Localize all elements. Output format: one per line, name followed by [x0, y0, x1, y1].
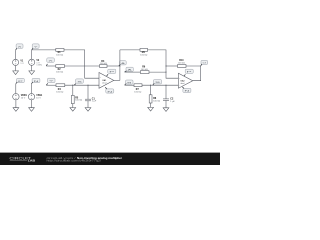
svg-text:−: −: [179, 85, 180, 87]
wire R2 to R3: [65, 65, 100, 67]
svg-text:10 V: 10 V: [21, 97, 26, 99]
wire V4 top: [30, 84, 32, 94]
flag F12 (output node): [201, 60, 208, 66]
svg-text:100 kΩ: 100 kΩ: [153, 101, 160, 103]
svg-text:1 kHz: 1 kHz: [36, 65, 42, 67]
flag F14 (OA2 V- pin): [182, 87, 191, 93]
flag F3 (row2 source): [46, 58, 54, 66]
svg-text:100 kΩ: 100 kΩ: [56, 71, 63, 73]
ground below V2: [29, 71, 35, 75]
voltage source V1: [13, 59, 25, 65]
junction row3/C2: [165, 85, 166, 86]
wire V4 bottom: [31, 100, 33, 108]
ground below V4: [29, 108, 35, 112]
wire V3 top: [15, 84, 17, 94]
wire R7 to OA2 minus input: [142, 84, 178, 86]
flag F11 (near junction x150.6): [153, 80, 163, 86]
footer bar: [0, 153, 220, 165]
flag F6 (OA1 V+ pin): [107, 69, 117, 76]
flag F8 (on riser, OA1 output net): [119, 61, 126, 66]
svg-text:ideal: ideal: [180, 83, 185, 85]
junction row3/R5: [72, 85, 73, 86]
wire V1 bottom: [15, 66, 17, 71]
feedback riser x119.9: [119, 50, 121, 81]
junction row2/riser: [119, 65, 120, 66]
top loop wire right, riser x166 down to OA2 plus input: [148, 50, 179, 78]
ground below R5: [70, 108, 76, 112]
ground below V3: [13, 108, 19, 112]
resistor R3: [100, 61, 108, 68]
svg-text:100 kΩ: 100 kΩ: [140, 55, 147, 57]
voltage source V4: [28, 94, 43, 100]
wire row3 left: [46, 84, 56, 86]
capacitor C2: [163, 85, 175, 108]
flag F5 (at junction x72.8): [74, 79, 84, 85]
capacitor C1: [85, 85, 97, 107]
wire V2 bottom: [31, 65, 33, 71]
wire riser to R10: [166, 65, 178, 67]
svg-text:1 µF: 1 µF: [170, 101, 175, 103]
resistor R8 (vertical): [149, 85, 160, 107]
wire V2 top node to R1: [32, 49, 56, 51]
svg-text:100 kΩ: 100 kΩ: [134, 92, 141, 94]
svg-text:ideal: ideal: [102, 82, 107, 84]
resistor R2: [56, 65, 65, 74]
resistor R1: [56, 49, 64, 57]
svg-text:100 kΩ: 100 kΩ: [75, 100, 82, 102]
CircuitLab logo: [9, 156, 35, 162]
resistor R7: [134, 84, 142, 94]
wire F9 to R6: [125, 71, 141, 73]
junction riser/R10 row: [165, 65, 166, 66]
svg-text:100 kΩ: 100 kΩ: [178, 62, 185, 64]
svg-text:1 V: 1 V: [20, 63, 24, 65]
wire R10 to output corner down to OA2 output: [186, 66, 201, 81]
junction row3/R8: [150, 85, 151, 86]
wire R4 to OA1 minus input: [65, 84, 99, 86]
voltage source V3: [13, 94, 28, 100]
flag F2 (net Y at V2 top): [32, 44, 40, 50]
resistor R4: [56, 84, 65, 94]
wire row2 left: [46, 65, 56, 67]
wire R1 to corner x84.7 down to OA1 plus input: [64, 50, 99, 78]
wire V3 bottom: [15, 100, 17, 108]
resistor R5 (vertical): [71, 85, 82, 107]
ground below V1: [13, 71, 19, 75]
op-amp OA1: [99, 73, 114, 89]
wire R6 to riser x166: [149, 71, 166, 73]
flag F13 (OA2 V+ pin): [184, 69, 194, 76]
wire R3 to riser x119.9: [107, 65, 120, 67]
top loop wire left: [120, 49, 140, 51]
svg-text:10 V: 10 V: [36, 97, 41, 99]
op-amp OA2: [178, 73, 192, 88]
ground below R8: [148, 107, 154, 111]
resistor R6: [140, 67, 149, 74]
svg-text:−: −: [100, 85, 101, 87]
svg-text:LAB: LAB: [28, 159, 35, 163]
flag F4 (row3 source): [46, 78, 55, 85]
ground below C1: [85, 108, 91, 112]
wire V1 top: [15, 50, 17, 59]
resistor R9 (top loop): [140, 49, 148, 57]
svg-text:+: +: [100, 77, 101, 79]
flag F16 (V4 top): [31, 78, 40, 83]
wire OA1 output to riser: [114, 79, 120, 81]
flag F1 (net X at V1 top): [16, 44, 24, 50]
wire V2 top: [31, 50, 33, 59]
svg-text:http://circuitlab.com/c4b2t9r7: http://circuitlab.com/c4b2t9r77q2/: [47, 160, 102, 163]
svg-text:100 kΩ: 100 kΩ: [56, 54, 63, 56]
flag F10 (R7 wire source): [125, 80, 134, 85]
svg-text:1 µF: 1 µF: [92, 101, 97, 103]
junction row3/C1: [87, 85, 88, 86]
svg-text:100 kΩ: 100 kΩ: [56, 92, 63, 94]
ground below C2: [163, 108, 169, 112]
resistor R10: [178, 60, 187, 67]
wire F10 to R7: [125, 84, 134, 86]
voltage source V2 (sine): [29, 59, 42, 66]
flag F7 (OA1 V- pin): [105, 87, 114, 93]
flag F9 (R6 wire source): [125, 67, 134, 72]
junction riser/R6 row: [165, 72, 166, 73]
flag F15 (V3 top): [16, 78, 25, 83]
